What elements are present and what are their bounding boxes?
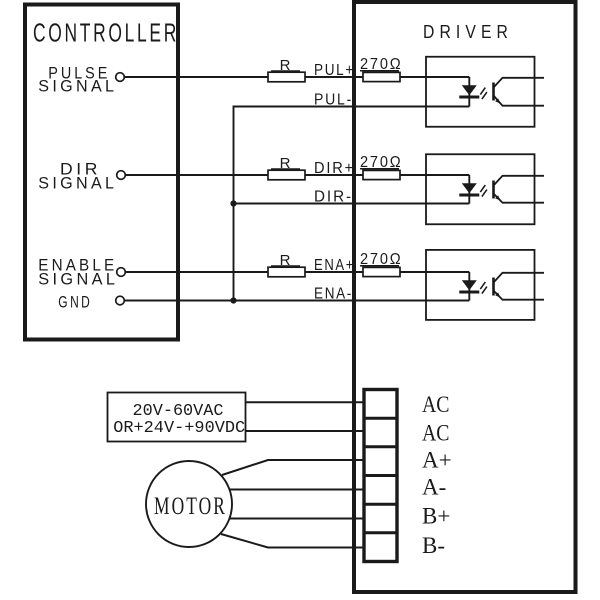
label ENABLE SIGNAL — [38, 256, 118, 289]
resistor 270ohm (dir) — [360, 154, 403, 180]
svg-text:SIGNAL: SIGNAL — [38, 270, 118, 289]
svg-text:ENA-: ENA- — [314, 286, 353, 303]
wire DIR+ — [125, 174, 469, 176]
terminal PULSE — [116, 73, 125, 82]
terminal ENABLE — [117, 268, 126, 277]
svg-text:DIR+: DIR+ — [314, 160, 355, 177]
svg-text:OR+24V-+90VDC: OR+24V-+90VDC — [113, 419, 245, 438]
resistor R3 (enable) — [268, 252, 305, 277]
optocoupler U3 (enable) — [426, 250, 544, 320]
wire AC2 — [245, 430, 364, 432]
wire A+ — [222, 460, 364, 475]
resistor 270ohm (enable) — [360, 251, 403, 277]
power supply box — [108, 393, 246, 442]
wire AC1 — [245, 401, 364, 403]
svg-text:DRIVER: DRIVER — [423, 21, 513, 42]
wire A- — [229, 489, 364, 491]
svg-text:ENA+: ENA+ — [314, 257, 355, 274]
svg-text:SIGNAL: SIGNAL — [38, 77, 117, 96]
svg-text:SIGNAL: SIGNAL — [38, 173, 117, 192]
motor M — [146, 461, 232, 547]
wire PUL+ — [124, 76, 469, 78]
svg-text:B+: B+ — [422, 504, 450, 529]
wire GND / ENA- — [124, 300, 469, 302]
resistor 270ohm (pulse) — [360, 56, 403, 82]
terminal GND — [116, 296, 125, 305]
svg-text:PUL+: PUL+ — [314, 62, 355, 79]
wire common vertical — [233, 106, 235, 301]
svg-text:AC: AC — [422, 420, 450, 445]
svg-text:A+: A+ — [422, 448, 452, 473]
svg-text:A-: A- — [422, 474, 446, 499]
svg-text:AC: AC — [422, 392, 450, 417]
terminal block — [364, 390, 397, 562]
label PULSE SIGNAL — [38, 63, 117, 95]
resistor R1 (pulse) — [268, 57, 305, 82]
svg-text:MOTOR: MOTOR — [154, 493, 227, 520]
svg-text:GND: GND — [58, 292, 92, 311]
optocoupler U2 (dir) — [426, 154, 544, 224]
wire DIR- — [234, 203, 470, 205]
svg-text:CONTROLLER: CONTROLLER — [33, 18, 179, 48]
optocoupler U1 (pulse) — [426, 57, 544, 127]
svg-text:DIR-: DIR- — [314, 189, 353, 206]
wire B+ — [229, 518, 364, 520]
wire B- — [221, 534, 364, 548]
resistor R2 (dir) — [268, 155, 305, 180]
wire PUL- — [234, 106, 470, 108]
wire ENA+ — [125, 271, 469, 273]
terminal DIR — [117, 171, 126, 180]
junction dot DIR- — [230, 200, 236, 206]
label DIR SIGNAL — [38, 159, 117, 192]
controller box — [25, 5, 178, 340]
svg-text:PUL-: PUL- — [314, 92, 353, 109]
driver box — [354, 2, 576, 592]
svg-text:B-: B- — [422, 533, 445, 558]
junction dot ENA- — [230, 297, 236, 303]
